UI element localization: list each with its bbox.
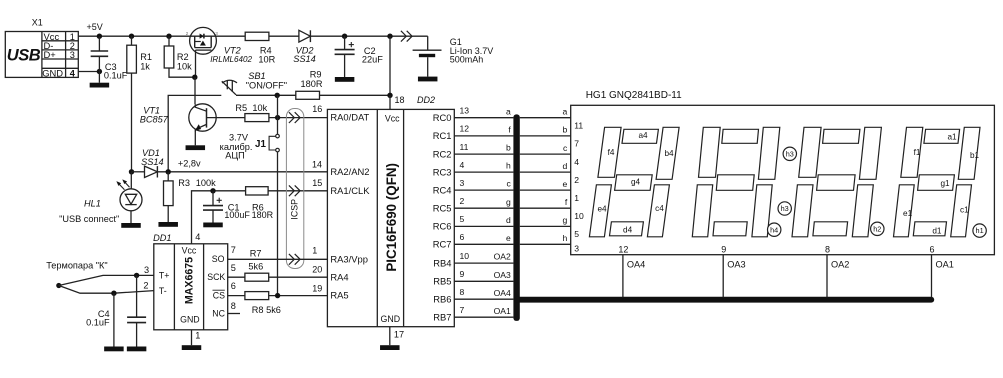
svg-text:SO: SO: [212, 254, 225, 264]
HG1 digit 3 segment e: [692, 185, 712, 237]
wire R4 to VD2: [269, 35, 299, 37]
jumper J1 bracket: [269, 136, 276, 150]
svg-text:14: 14: [312, 159, 322, 169]
capacitor C2 polarity +: [349, 44, 354, 46]
svg-text:5: 5: [574, 229, 579, 239]
svg-text:HL1: HL1: [84, 199, 101, 209]
wire pin18 into chip: [389, 95, 391, 109]
svg-text:ICSP: ICSP: [289, 199, 299, 220]
svg-text:RC5: RC5: [433, 202, 452, 213]
wire gate to VT1 collector: [194, 77, 196, 104]
HG1 digit 4 (leftmost) segment c: [647, 185, 669, 237]
svg-text:SS14: SS14: [141, 157, 163, 167]
HG1 digit 4 (leftmost) segment d: [610, 222, 644, 236]
svg-text:RA2/AN2: RA2/AN2: [330, 166, 369, 177]
HG1 digit 2 segment f: [799, 127, 821, 177]
svg-text:PIC16F690 (QFN): PIC16F690 (QFN): [384, 163, 399, 272]
svg-text:f1: f1: [914, 148, 921, 157]
decimal point label h1: [973, 224, 986, 237]
svg-text:SS14: SS14: [293, 54, 315, 64]
svg-text:RB5: RB5: [433, 276, 451, 287]
connector ICSP outline: [286, 109, 303, 269]
junction VD1/R3/SB1: [166, 169, 171, 174]
svg-text:8: 8: [231, 301, 236, 311]
svg-text:HG1 GNQ2841BD-11: HG1 GNQ2841BD-11: [586, 90, 682, 101]
HG1 digit 1 (rightmost) segment g: [918, 175, 955, 191]
svg-text:RC0: RC0: [433, 112, 452, 123]
wire CS row: [228, 295, 328, 297]
svg-text:RA4: RA4: [330, 271, 348, 282]
svg-text:5: 5: [460, 214, 465, 224]
svg-text:GND: GND: [42, 67, 63, 78]
wire VT1 emitter to ground: [194, 131, 196, 145]
resistor R2: [168, 36, 170, 46]
wire DD2 GND pin17: [389, 327, 391, 346]
HG1 digit 1 (rightmost) segment e: [894, 185, 915, 237]
svg-text:RA3/Vpp: RA3/Vpp: [330, 253, 368, 264]
wire display b: [520, 135, 571, 137]
svg-text:b4: b4: [664, 149, 674, 158]
ground under R3: [158, 222, 178, 227]
svg-text:RB4: RB4: [433, 257, 451, 268]
wire battery to ground: [427, 57, 429, 76]
svg-text:c: c: [507, 179, 512, 189]
ground under C1: [203, 223, 223, 228]
svg-text:b: b: [563, 125, 568, 135]
svg-text:16: 16: [312, 104, 322, 114]
svg-text:3: 3: [574, 244, 579, 254]
resistor R7: [245, 273, 269, 281]
wire RB4 to bus: [454, 262, 513, 264]
svg-text:SCK: SCK: [207, 272, 225, 282]
svg-text:3: 3: [70, 50, 75, 60]
svg-text:c: c: [563, 143, 568, 153]
svg-text:1: 1: [312, 246, 317, 256]
svg-text:10: 10: [460, 251, 470, 261]
wire display f: [520, 207, 571, 209]
svg-text:J1: J1: [255, 139, 266, 150]
display HG1 box: [571, 105, 995, 254]
transistor VT1 collector: [195, 104, 206, 111]
decimal point label h2: [871, 222, 884, 235]
wire SCK row: [228, 276, 328, 278]
svg-text:OA4: OA4: [627, 259, 645, 269]
svg-text:CS: CS: [213, 290, 225, 300]
transistor VT2 drain bar: [210, 36, 212, 47]
wire R1 node to HL1: [130, 172, 132, 189]
resistor R3: [167, 172, 169, 181]
svg-text:e1: e1: [903, 209, 913, 218]
svg-text:11: 11: [460, 142, 469, 152]
svg-text:b1: b1: [970, 151, 980, 160]
LED HL1 cathode bar: [125, 204, 136, 206]
HG1 digit 1 (rightmost) segment a: [924, 129, 960, 143]
HG1 digit 1 (rightmost) segment b: [958, 127, 980, 179]
svg-text:500mAh: 500mAh: [450, 55, 484, 65]
switch SB1 blade: [222, 81, 236, 95]
svg-text:OA3: OA3: [727, 259, 745, 269]
wire RC3 to bus: [454, 171, 513, 173]
resistor R5: [245, 114, 269, 122]
transistor VT1 base bar: [206, 108, 208, 127]
diode VD1: [145, 166, 158, 177]
junction R2/gate: [192, 75, 197, 80]
svg-text:5: 5: [231, 263, 236, 273]
HG1 digit 3 segment b: [758, 127, 779, 179]
capacitor C3: [98, 36, 100, 51]
svg-text:h2: h2: [873, 224, 881, 233]
junction C1 node: [210, 188, 215, 193]
wire VD1 anode: [132, 171, 145, 173]
svg-text:18: 18: [395, 95, 405, 105]
junction rail/Vcc drop: [387, 34, 392, 39]
chip DD2 dividers: [376, 109, 378, 326]
HG1 digit 2 segment c: [852, 185, 873, 237]
wire battery drop: [427, 36, 429, 50]
svg-text:6: 6: [460, 232, 465, 242]
svg-text:NC: NC: [212, 308, 225, 318]
svg-text:R2: R2: [177, 52, 189, 62]
svg-text:a4: a4: [638, 131, 648, 140]
thermocouple bottom lead: [59, 286, 154, 294]
svg-text:R3: R3: [178, 178, 190, 188]
svg-text:4: 4: [460, 160, 465, 170]
wire display pin 9 to bus: [722, 255, 724, 298]
transistor VT2 gate line: [196, 49, 212, 51]
svg-text:АЦП: АЦП: [225, 151, 245, 161]
connector chevron pin1: [289, 254, 294, 265]
svg-text:20: 20: [312, 264, 322, 274]
resistor R6: [246, 187, 269, 195]
svg-text:11: 11: [574, 121, 583, 131]
svg-text:g4: g4: [631, 177, 641, 186]
svg-text:RC1: RC1: [433, 130, 452, 141]
capacitor C4: [136, 275, 138, 317]
svg-text:g: g: [563, 215, 568, 225]
HG1 digit 3 segment d: [713, 222, 747, 236]
ground under VT1: [186, 145, 206, 150]
HG1 digit 2 segment e: [792, 185, 813, 237]
transistor VT2 channel: [195, 47, 212, 49]
svg-text:7: 7: [460, 305, 465, 315]
wire display e: [520, 189, 571, 191]
switch SB1 actuator: [222, 80, 237, 83]
svg-text:19: 19: [312, 283, 322, 293]
wire RC0 to bus: [454, 117, 513, 119]
svg-text:4: 4: [574, 157, 579, 167]
wire display pin 8 to bus: [826, 255, 828, 298]
junction CS/J1: [275, 293, 280, 298]
ground under C2: [335, 77, 355, 82]
HG1 digit 4 (leftmost) segment e: [589, 185, 611, 237]
svg-text:R7: R7: [250, 249, 262, 259]
svg-text:22uF: 22uF: [362, 55, 383, 65]
svg-text:1k: 1k: [140, 61, 150, 71]
svg-text:T-: T-: [159, 286, 167, 296]
LED HL1 arrows: [118, 182, 125, 189]
svg-text:6: 6: [929, 244, 934, 254]
svg-text:BC857: BC857: [140, 115, 169, 125]
chip DD1 box: [154, 244, 228, 330]
svg-text:7: 7: [231, 245, 236, 255]
wire SB1 to R9: [236, 94, 296, 96]
svg-text:"USB connect": "USB connect": [59, 214, 119, 224]
svg-text:e4: e4: [597, 204, 607, 213]
bus horizontal: [517, 297, 931, 303]
svg-text:OA2: OA2: [494, 252, 511, 262]
svg-text:RB6: RB6: [433, 293, 451, 304]
capacitor C2: [344, 36, 346, 49]
HG1 digit 2 segment b: [859, 127, 881, 179]
HG1 digit 1 (rightmost) segment f: [901, 127, 923, 177]
svg-text:h: h: [506, 161, 511, 171]
ground under C4: [127, 347, 147, 352]
thermocouple top lead: [59, 275, 154, 285]
HG1 digit 2 segment a: [823, 129, 860, 143]
svg-text:RC6: RC6: [433, 221, 452, 232]
wire NC stub: [228, 313, 240, 315]
ground under HL1: [121, 223, 141, 228]
connector chevrons to battery: [401, 31, 406, 42]
svg-text:g1: g1: [940, 179, 950, 188]
junction USB-GND/C3: [97, 69, 102, 74]
svg-text:RA1/CLK: RA1/CLK: [330, 185, 370, 196]
svg-text:b: b: [506, 143, 511, 153]
wire VT2 gate down: [195, 50, 197, 77]
svg-text:c1: c1: [960, 206, 969, 215]
capacitor C1 polarity +: [217, 199, 222, 201]
junction R1/VD1: [129, 169, 134, 174]
svg-text:12: 12: [460, 124, 470, 134]
wire display g: [520, 225, 571, 227]
wire RB7 to bus: [454, 316, 513, 318]
svg-text:X1: X1: [32, 18, 43, 28]
svg-text:Vcc: Vcc: [385, 114, 400, 124]
wire rail down to pin18 node: [389, 36, 391, 95]
wire HL1 to ground: [130, 211, 132, 223]
HG1 digit 3 segment f: [699, 127, 721, 177]
wire J1 down to CS node: [277, 152, 279, 296]
HG1 digit 2 segment d: [813, 222, 848, 236]
LED HL1 circle: [120, 189, 142, 211]
junction T+ / C4: [134, 273, 139, 278]
svg-text:f4: f4: [608, 148, 615, 157]
svg-text:0.1uF: 0.1uF: [104, 70, 128, 80]
junction rail/R2: [166, 34, 171, 39]
svg-text:Vcc: Vcc: [182, 245, 197, 255]
svg-text:180R: 180R: [301, 79, 323, 89]
svg-text:OA1: OA1: [494, 306, 511, 316]
HG1 digit 3 segment c: [752, 185, 772, 237]
svg-text:4: 4: [195, 232, 200, 242]
wire R5 to pin16: [269, 117, 328, 119]
wire RC5 to bus: [454, 207, 513, 209]
svg-text:d1: d1: [932, 227, 942, 236]
svg-text:5k6: 5k6: [248, 261, 263, 271]
transistor VT2 rail through: [190, 35, 217, 37]
LED HL1 triangle: [125, 194, 136, 204]
svg-text:R8 5k6: R8 5k6: [252, 305, 281, 315]
svg-text:RA5: RA5: [330, 290, 348, 301]
svg-text:e: e: [506, 233, 511, 243]
svg-text:DD2: DD2: [417, 95, 435, 105]
wire display pin 6 to bus: [931, 255, 933, 298]
svg-text:R1: R1: [140, 52, 152, 62]
resistor R9: [296, 91, 320, 99]
transistor VT1 emitter arrow: [195, 125, 201, 131]
svg-text:Термопара "К": Термопара "К": [46, 260, 107, 270]
svg-text:RC7: RC7: [433, 239, 452, 250]
wire SB1 junction to J1: [277, 95, 279, 134]
HG1 digit 1 (rightmost) segment d: [913, 222, 946, 236]
wire +2.8v to pin14: [157, 171, 327, 173]
svg-text:a1: a1: [947, 133, 957, 142]
transistor VT1 emitter: [195, 124, 206, 131]
svg-text:6: 6: [231, 281, 236, 291]
svg-text:100uF: 100uF: [224, 210, 250, 220]
svg-text:OA2: OA2: [831, 259, 849, 269]
wire RC2 to bus: [454, 153, 513, 155]
svg-text:GND: GND: [381, 314, 401, 324]
HG1 digit 1 (rightmost) segment c: [951, 185, 972, 237]
HG1 digit 4 (leftmost) segment g: [615, 175, 653, 191]
jumper J1 bottom pin: [276, 148, 280, 152]
thermocouple probe tip: [56, 283, 61, 288]
wire DD1 GND pin1: [191, 330, 193, 345]
bus vertical: [513, 114, 519, 321]
wire VD2 to battery corner: [310, 35, 427, 37]
svg-text:+5V: +5V: [87, 22, 103, 32]
svg-text:8: 8: [460, 287, 465, 297]
chip DD1 dividers: [173, 244, 175, 330]
wire display c: [520, 153, 571, 155]
svg-text:h: h: [563, 233, 568, 243]
wire T- to ground: [113, 293, 115, 346]
resistor R8: [245, 292, 269, 300]
svg-text:d: d: [563, 161, 568, 171]
svg-text:USB: USB: [7, 47, 41, 65]
wire RC4 to bus: [454, 189, 513, 191]
transistor VT2 middle stub: [195, 41, 201, 43]
svg-text:10k: 10k: [252, 103, 267, 113]
svg-text:DD1: DD1: [153, 233, 171, 243]
svg-text:3: 3: [460, 178, 465, 188]
connector X1 outer box: [5, 32, 78, 78]
svg-text:a: a: [563, 106, 568, 116]
HG1 digit 3 segment g: [716, 175, 754, 191]
svg-text:RB7: RB7: [433, 311, 451, 322]
svg-text:12: 12: [618, 244, 628, 254]
svg-text:180R: 180R: [252, 210, 274, 220]
ground under G1: [418, 77, 438, 82]
HG1 digit 4 (leftmost) segment f: [598, 127, 621, 177]
ground under USB: [98, 72, 100, 83]
connector chevron pin15: [289, 185, 294, 196]
svg-text:h1: h1: [976, 226, 984, 235]
connector X1 pin table: [41, 32, 43, 78]
svg-text:+2,8v: +2,8v: [178, 158, 201, 168]
svg-text:9: 9: [460, 269, 465, 279]
ground under T-: [104, 347, 124, 352]
wire display h: [520, 243, 571, 245]
junction R5/J1 wire: [275, 115, 280, 120]
transistor VT2 body diode: [200, 34, 204, 39]
capacitor C1: [212, 191, 214, 206]
chip DD2 box: [327, 109, 454, 326]
HG1 digit 4 (leftmost) segment a: [622, 129, 658, 143]
svg-text:a: a: [506, 106, 511, 116]
svg-text:10k: 10k: [177, 61, 192, 71]
resistor R4: [245, 32, 269, 40]
transistor VT2 source bar: [194, 36, 196, 47]
svg-text:OA3: OA3: [494, 270, 511, 280]
svg-text:4: 4: [70, 68, 76, 78]
junction rail/R1: [129, 34, 134, 39]
junction SB1/J1: [275, 93, 280, 98]
wire R9 to pin18 node: [320, 94, 391, 96]
wire USB GND pin4: [78, 71, 99, 73]
svg-text:OA4: OA4: [494, 288, 511, 298]
wire VT1 base to R5: [207, 117, 245, 119]
wire RC7 to bus: [454, 243, 513, 245]
svg-text:h3: h3: [786, 149, 794, 158]
transistor VT2 up arrow: [200, 41, 205, 46]
junction rail/C2: [342, 34, 347, 39]
transistor VT2 circle: [190, 27, 217, 54]
wire RC1 to bus: [454, 135, 513, 137]
svg-text:h4: h4: [770, 225, 778, 234]
svg-text:d4: d4: [623, 225, 633, 234]
svg-text:T+: T+: [159, 270, 170, 280]
wire RB5 to bus: [454, 280, 513, 282]
junction T- / gnd: [111, 291, 116, 296]
battery G1 plus plate: [413, 49, 442, 51]
connector chevron pin16: [289, 112, 294, 123]
wire display pin 12 to bus: [622, 255, 624, 298]
ground under DD2: [380, 345, 400, 350]
svg-text:h3: h3: [781, 204, 789, 213]
svg-text:"ON/OFF": "ON/OFF": [246, 80, 287, 90]
svg-text:1: 1: [574, 193, 579, 203]
svg-text:g: g: [506, 197, 511, 207]
decimal point label h3: [783, 147, 796, 160]
svg-text:RC3: RC3: [433, 166, 452, 177]
svg-text:R5: R5: [235, 103, 247, 113]
svg-text:d: d: [506, 215, 511, 225]
wire RB6 to bus: [454, 298, 513, 300]
svg-text:RC4: RC4: [433, 184, 452, 195]
svg-text:D+: D+: [44, 49, 57, 60]
svg-text:GND: GND: [180, 315, 200, 325]
node +5V main rail wire (USB pin1 to VT2): [78, 35, 190, 37]
svg-text:RC2: RC2: [433, 148, 452, 159]
wire display a: [520, 117, 571, 119]
svg-text:1: 1: [195, 331, 200, 341]
wire RA1 row: [192, 191, 328, 244]
svg-text:13: 13: [460, 106, 470, 116]
wire display d: [520, 171, 571, 173]
svg-text:OA1: OA1: [936, 259, 954, 269]
svg-text:7: 7: [574, 139, 579, 149]
HG1 digit 4 (leftmost) segment b: [656, 127, 679, 179]
HG1 digit 3 segment a: [722, 129, 759, 143]
battery G1 minus plate: [419, 54, 435, 57]
transistor VT1 circle: [189, 104, 216, 131]
decimal point label h4: [768, 223, 781, 236]
svg-text:2: 2: [460, 196, 465, 206]
svg-text:e: e: [563, 179, 568, 189]
decimal point label h3: [778, 202, 791, 215]
